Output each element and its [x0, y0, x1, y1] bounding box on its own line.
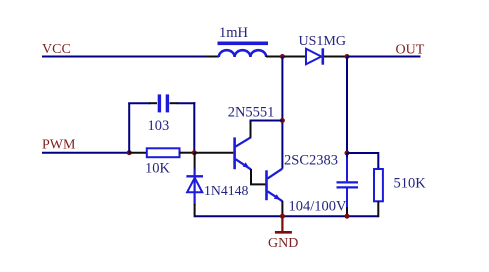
svg-text:GND: GND — [268, 236, 298, 251]
node R-diode-base junction — [192, 150, 197, 155]
node bottom rail right junction — [345, 214, 350, 219]
svg-text:US1MG: US1MG — [299, 34, 346, 49]
node inductor-diode junction — [280, 54, 285, 59]
pin R2 bottom — [377, 201, 379, 217]
svg-text:2SC2383: 2SC2383 — [284, 152, 338, 168]
wire Q2 emitter lead — [281, 201, 283, 217]
pin R1 right — [180, 152, 195, 154]
wire cap loop top right — [177, 102, 195, 104]
transistor Q1 2N5551 — [235, 137, 251, 169]
resistor R 510K — [374, 169, 383, 201]
inductor 1mH — [218, 42, 269, 58]
wire bottom rail — [195, 215, 379, 217]
pin D1 cathode — [324, 56, 345, 58]
svg-text:1N4148: 1N4148 — [204, 183, 249, 198]
pin C2 bottom — [346, 189, 348, 209]
wire Q1 base lead — [194, 152, 233, 154]
wire to 510K top — [347, 153, 378, 168]
wire Q1 collector lead horizontal — [250, 120, 283, 122]
svg-text:PWM: PWM — [42, 138, 76, 153]
pin R1 left — [129, 152, 147, 154]
pin DZ bottom — [194, 204, 196, 217]
wire OUT rail — [347, 56, 421, 58]
wire cap loop right vertical — [193, 102, 195, 153]
svg-text:103: 103 — [148, 118, 170, 134]
node PWM-cap junction — [127, 150, 132, 155]
pin R2 top — [377, 167, 379, 170]
pin C2 top — [346, 153, 348, 159]
wire right branch vertical — [346, 57, 348, 154]
ground — [275, 216, 292, 232]
node diode-out junction — [345, 54, 350, 59]
node GND junction — [280, 214, 285, 219]
node cap-resistor junction — [345, 151, 350, 156]
svg-text:VCC: VCC — [42, 42, 71, 57]
capacitor C 103 — [159, 94, 167, 112]
capacitor C 104/100V — [337, 182, 359, 187]
wire main vertical from top junction — [281, 57, 283, 169]
svg-text:510K: 510K — [394, 176, 427, 192]
wire PWM — [42, 152, 129, 154]
wire cap loop top left — [128, 102, 150, 104]
pin L1 right — [266, 56, 280, 58]
resistor R 10K — [147, 148, 180, 157]
pin C1 right — [170, 102, 179, 104]
node Q1 collector junction — [280, 118, 285, 123]
pin D1 anode — [284, 56, 306, 58]
svg-text:OUT: OUT — [396, 43, 425, 58]
pin C1 left — [149, 102, 157, 104]
diode 1N4148 — [186, 169, 203, 206]
pin L1 left — [206, 56, 219, 58]
diode US1MG — [306, 48, 323, 64]
svg-text:2N5551: 2N5551 — [228, 105, 275, 121]
svg-text:10K: 10K — [145, 160, 171, 176]
pin DZ top — [194, 153, 196, 170]
wire cap loop left vertical — [128, 103, 130, 153]
wire Q1 emitter to Q2 base — [251, 169, 266, 184]
svg-text:1mH: 1mH — [219, 25, 249, 41]
wire VCC rail — [42, 56, 207, 58]
svg-text:104/100V: 104/100V — [289, 199, 348, 215]
transistor Q2 2SC2383 — [267, 169, 283, 202]
wire Q1 collector lead vertical — [250, 121, 252, 138]
